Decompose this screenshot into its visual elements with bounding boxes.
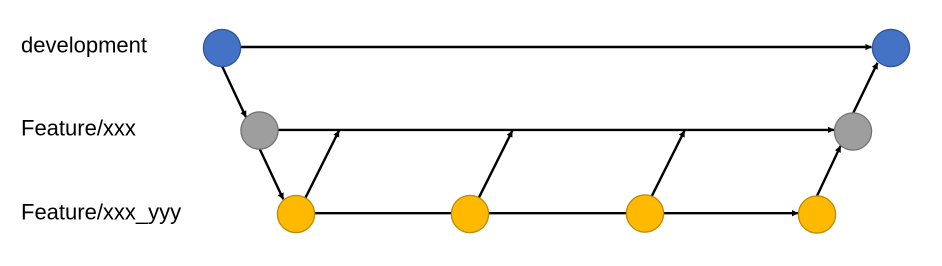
wire development lane arrow bbox=[222, 46, 872, 48]
wire merge Feature/xxx to development node bbox=[853, 63, 878, 114]
node Feature/xxx end (gray) bbox=[834, 113, 871, 150]
wire Feature/xxx lane arrow bbox=[260, 129, 835, 131]
wire branch development to Feature/xxx bbox=[222, 66, 246, 117]
node Feature/xxx_yyy commit 4 (orange) bbox=[798, 196, 835, 233]
wire Feature/xxx_yyy lane arrow segment 2 bbox=[650, 212, 798, 214]
node Feature/xxx_yyy commit 1 (orange) bbox=[277, 195, 314, 232]
wire merge Feature/xxx_yyy to Feature/xxx node bbox=[817, 146, 841, 197]
wire branch Feature/xxx to Feature/xxx_yyy bbox=[260, 149, 284, 200]
node development end (blue) bbox=[872, 29, 909, 66]
node Feature/xxx start (gray) bbox=[241, 112, 278, 149]
wire merge 1 to Feature/xxx lane bbox=[302, 131, 339, 205]
svg-text:development: development bbox=[21, 33, 147, 58]
wire Feature/xxx_yyy lane segment 1 bbox=[296, 212, 655, 214]
wire merge 2 to Feature/xxx lane bbox=[475, 131, 512, 205]
node Feature/xxx_yyy commit 3 (orange) bbox=[626, 195, 663, 232]
node Feature/xxx_yyy commit 2 (orange) bbox=[451, 195, 488, 232]
node development start (blue) bbox=[203, 29, 240, 66]
svg-text:Feature/xxx_yyy: Feature/xxx_yyy bbox=[21, 200, 181, 225]
wire merge 3 to Feature/xxx lane bbox=[648, 131, 685, 205]
svg-text:Feature/xxx: Feature/xxx bbox=[21, 116, 136, 141]
